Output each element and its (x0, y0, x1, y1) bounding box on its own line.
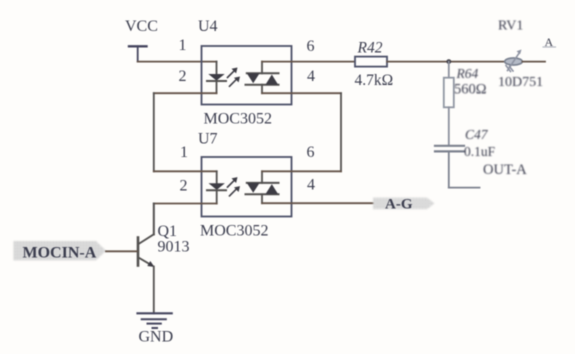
wire U7 pin2 down to Q1 collector (153, 204, 155, 235)
svg-text:U7: U7 (198, 131, 218, 148)
wire U4 pin 6 to R42 (262, 61, 355, 63)
wire R64 to C47 (448, 107, 450, 145)
resistor R42 body (355, 57, 387, 67)
svg-text:GND: GND (139, 329, 174, 346)
svg-text:2: 2 (179, 68, 187, 85)
svg-text:MOC3052: MOC3052 (204, 111, 272, 128)
svg-text:4: 4 (307, 68, 315, 85)
U4 internal triac (246, 62, 279, 94)
svg-text:Q1: Q1 (158, 223, 178, 240)
svg-text:VCC: VCC (125, 18, 158, 35)
svg-text:1: 1 (180, 144, 188, 161)
wire left vertical U4 pin2 to U7 pin1 (153, 93, 155, 171)
transistor Q1 (138, 234, 155, 267)
U7 light arrows (228, 177, 241, 196)
net tag MOCIN-A (14, 241, 107, 262)
wire MOCIN-A to Q1 base (106, 250, 137, 252)
wire Q1 emitter down to ground (153, 267, 155, 314)
wire U7 pin 4 to A-G tag (262, 202, 373, 204)
wire right vertical U4 pin4 to U7 pin6 (340, 93, 342, 171)
varistor RV1 (505, 50, 523, 72)
resistor R64 body (444, 78, 454, 108)
net tag A-G (373, 197, 435, 213)
svg-text:9013: 9013 (158, 239, 190, 256)
svg-text:MOCIN-A: MOCIN-A (23, 245, 97, 262)
U7 internal triac (246, 171, 279, 203)
capacitor C47 (435, 146, 464, 152)
svg-text:C47: C47 (465, 127, 489, 142)
svg-text:4: 4 (307, 177, 315, 194)
svg-text:U4: U4 (198, 18, 218, 35)
wire U7 pin 6 (262, 170, 341, 172)
svg-text:MOC3052: MOC3052 (200, 223, 268, 240)
power VCC (125, 18, 158, 62)
wire U4 pin 4 going right (262, 92, 341, 94)
U7 internal LED (207, 171, 226, 203)
optocoupler U7 body (202, 157, 292, 217)
net label A (543, 35, 556, 49)
wire U7 pin 1 (154, 170, 217, 172)
svg-text:0.1uF: 0.1uF (464, 144, 496, 159)
svg-text:R42: R42 (357, 40, 383, 57)
svg-text:A-G: A-G (385, 197, 413, 213)
svg-text:OUT-A: OUT-A (483, 162, 527, 178)
svg-text:560Ω: 560Ω (454, 82, 487, 98)
wire VCC to U4 pin 1 (138, 61, 217, 63)
svg-text:6: 6 (307, 144, 315, 161)
svg-text:1: 1 (179, 37, 187, 54)
svg-text:6: 6 (307, 38, 315, 55)
junction node (446, 59, 451, 64)
svg-text:10D751: 10D751 (498, 75, 543, 90)
svg-text:2: 2 (180, 178, 188, 195)
svg-text:RV1: RV1 (498, 19, 523, 34)
wire U4 pin 2 going left (154, 92, 217, 94)
U4 light arrows (228, 68, 241, 87)
wire junction down to R64 (448, 62, 450, 78)
optocoupler U4 body (202, 46, 292, 105)
wire R42 to junction and RV1 (387, 61, 505, 63)
ground (138, 313, 172, 328)
svg-text:4.7kΩ: 4.7kΩ (355, 72, 394, 89)
wire U7 pin 2 going left (154, 203, 217, 205)
wire C47 to OUT-A stub (449, 151, 480, 187)
wire Q1 collector up (153, 204, 155, 235)
wire RV1 to net A (523, 61, 546, 63)
U4 internal LED (207, 62, 226, 94)
svg-text:R64: R64 (456, 66, 479, 81)
